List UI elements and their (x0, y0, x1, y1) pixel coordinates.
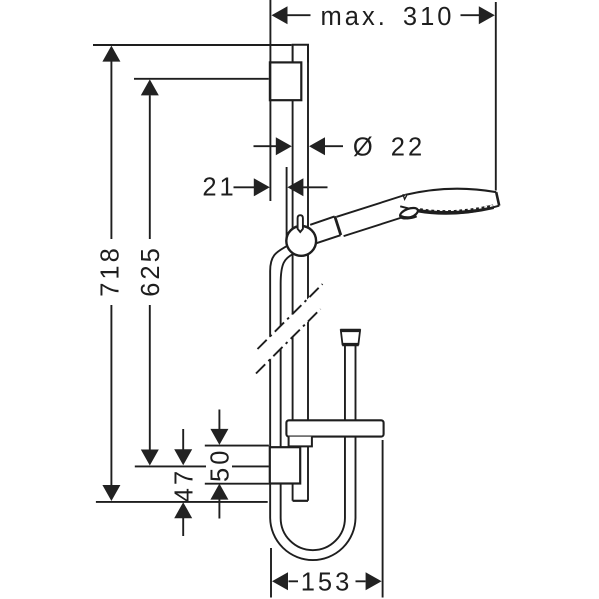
wire 21 extension line (286, 167, 288, 240)
wire 625 top reference line (134, 78, 269, 80)
node hand shower grip cone (310, 215, 345, 243)
wire max310 dimension tails (287, 14, 479, 16)
svg-text:50: 50 (207, 448, 235, 482)
node arrow 50 top (210, 429, 228, 445)
node arrow 625 bottom (141, 450, 159, 466)
wire 50 bottom reference line (205, 483, 269, 485)
wire 47 upper tail (182, 429, 184, 450)
svg-text:47: 47 (171, 468, 199, 502)
wire 50 top reference line (205, 445, 269, 447)
wire bottom reference line y502 (96, 501, 268, 503)
node hose end fitting (340, 330, 360, 344)
node arrow 50 bottom (210, 484, 228, 500)
wire break line upper (258, 284, 323, 349)
wire 153 extension line left (270, 548, 272, 598)
wire break line lower (256, 309, 321, 374)
node rail top cap (293, 45, 308, 63)
node arrow dia22 right (309, 137, 325, 155)
wire rail right edge (307, 45, 309, 501)
node wall bracket bottom (270, 447, 300, 483)
node arrow 718 top (102, 46, 120, 62)
node arrow 153 left (272, 572, 288, 590)
wire dia22 dimension tails (254, 145, 344, 147)
wire 50 upper tail (218, 410, 220, 430)
wire rail left edge (292, 100, 294, 501)
wire extension line right of max310 (495, 2, 497, 191)
node rail bottom cap (293, 500, 308, 502)
node arrow 718 bottom (102, 485, 120, 501)
wire mid reference line y466 (135, 465, 269, 467)
wire extension line left of max310 (269, 0, 271, 201)
wire 153 dimension lines (289, 580, 366, 582)
wire top reference line y45 (93, 44, 292, 46)
node break strip (256, 284, 323, 374)
node shower head (400, 189, 499, 214)
wire hose inner (281, 254, 345, 550)
svg-text:21: 21 (202, 174, 236, 202)
svg-text:Ø 22: Ø 22 (353, 133, 425, 161)
node soap dish stem (289, 437, 312, 447)
svg-text:153: 153 (301, 568, 353, 596)
svg-text:max. 310: max. 310 (321, 3, 455, 31)
wire 153 extension line right (382, 440, 384, 598)
wire 625 dimension line (149, 95, 151, 450)
node wall bracket top (270, 62, 301, 100)
wire 718 dimension line (110, 62, 112, 486)
node arrow max310 right (479, 6, 495, 24)
node head pivot joint (399, 206, 419, 221)
node arrow 21 left (254, 178, 270, 196)
node arrow 47 top (174, 449, 192, 465)
node arrow 153 right (366, 572, 382, 590)
node slider pin (298, 215, 303, 232)
wire 21 dimension lines (234, 186, 328, 188)
node hand shower shaft (337, 195, 406, 236)
node arrow 47 bottom (174, 502, 192, 518)
node arrow 21 right (287, 178, 303, 196)
node arrow dia22 left (276, 137, 292, 155)
node arrow max310 left (272, 6, 288, 24)
node slider ball (286, 226, 316, 256)
node soap dish (286, 420, 383, 436)
wire 47 lower tail (182, 518, 184, 536)
node arrow 625 top (141, 79, 159, 95)
wire 50 lower tail (218, 499, 220, 518)
svg-text:718: 718 (97, 245, 125, 297)
node head junction notch (403, 194, 407, 199)
wire hose outer (270, 245, 355, 560)
svg-text:625: 625 (137, 245, 165, 297)
